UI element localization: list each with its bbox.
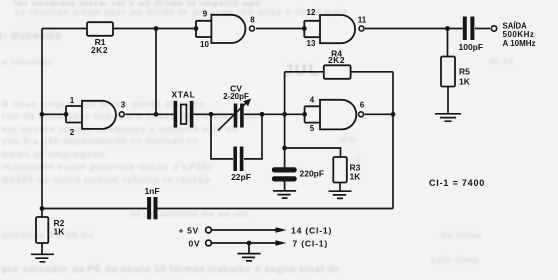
svg-text:2: 2 [70,128,75,137]
terminal +5V [206,227,212,233]
node gate6 output / right vertical [391,112,396,117]
svg-text:10: 10 [200,40,209,49]
node 220pF / R3 [282,146,287,151]
node 22pF branch right [260,112,265,117]
node left bus / bottom rail [40,206,45,211]
capacitor CV 2-20pF trimmer [218,99,251,131]
capacitor 100pF [463,17,475,41]
wire gate6 output to right vertical [365,113,394,115]
svg-text:1nF: 1nF [144,186,159,196]
node mid rail / vertical 156 [154,112,159,117]
wire gate3 output to XTAL [126,113,174,115]
crystal XTAL [174,101,194,128]
node 22pF branch left [209,112,214,117]
wire bottom rail left of 1nF [42,208,147,210]
svg-text:9: 9 [203,10,208,19]
resistor R3 [333,157,347,183]
svg-text:6: 6 [360,101,365,110]
svg-text:0V: 0V [189,239,201,249]
resistor R4 [324,65,351,79]
resistor R5 [441,57,455,87]
svg-text:2-20pF: 2-20pF [223,92,249,101]
svg-text:11: 11 [358,16,367,25]
resistor R2 [36,217,48,243]
wire XTAL to CV [194,113,234,115]
ground below 220pF [273,191,296,198]
wire +5V line [212,229,276,231]
svg-text:+ 5V: + 5V [179,226,199,236]
svg-text:1K: 1K [350,172,362,182]
node gate 9,10 input [194,26,199,31]
wire 0V ground drop [248,243,250,254]
NAND gate U1d pins 4,5 out 6 [305,100,364,130]
capacitor 22pF [233,147,243,172]
wire R5 bottom lead [447,87,449,114]
svg-text:R5: R5 [459,67,470,77]
output terminal SAIDA [491,26,496,31]
svg-text:2K2: 2K2 [91,45,108,55]
node R4 left / mid rail [282,112,287,117]
resistor R1 [87,22,113,36]
capacitor 220pF [272,167,297,181]
node gate 12,13 input [302,26,307,31]
wire R3 bottom lead [339,183,341,191]
svg-text:220pF: 220pF [300,169,325,179]
svg-text:500KHz: 500KHz [503,30,535,39]
node top rail / vertical 156 [154,26,159,31]
svg-text:100pF: 100pF [459,42,484,52]
svg-text:7 (CI-1): 7 (CI-1) [293,239,329,249]
node left bus / mid rail [40,112,45,117]
arrow to pin 14 [276,227,287,233]
ground below R5 [435,114,461,121]
wire gate8 output to gate12 bracket [256,28,304,30]
terminal 0V [206,240,212,246]
wire vertical from top rail to mid rail [155,29,157,115]
node gate 4,5 input [302,112,307,117]
ground on 0V line [238,254,261,261]
ground below R2 [31,254,54,261]
wire R4 feedback top right [351,71,393,73]
wire 220pF bottom lead [284,182,286,191]
wire gate11 output to 100pF node [365,28,463,30]
ground below R3 [329,191,352,198]
svg-text:13: 13 [307,39,316,48]
svg-text:12: 12 [307,8,316,17]
wire R4 feedback left vertical [284,72,286,148]
node gate 1,2 input [64,112,69,117]
svg-text:1K: 1K [54,227,66,237]
wire 0V line [212,242,276,244]
node 0V ground tap [247,241,252,246]
svg-text:1K: 1K [459,77,471,87]
arrow to pin 7 [276,240,287,246]
wire 22pF branch right rise [244,114,262,159]
NAND gate U1b pins 9,10 out 8 [196,15,255,43]
NAND gate U1a pins 1,2 out 3 [66,101,124,129]
wire R2 bottom lead [41,243,43,254]
svg-text:8: 8 [250,16,255,25]
wire R4 feedback top left [285,71,324,73]
wire right vertical gate6 node down to bottom rail [392,72,394,209]
svg-text:14 (CI-1): 14 (CI-1) [291,226,332,236]
svg-text:4: 4 [310,96,315,105]
wire bottom rail right of 1nF [158,208,394,210]
wire node line to R3 [285,148,341,157]
svg-text:1: 1 [70,96,75,105]
svg-text:3: 3 [121,101,126,110]
wire left vertical bus [41,29,43,209]
wire R2 top lead [41,209,43,218]
wire top rail left segment [42,28,87,30]
svg-text:A 10MHz: A 10MHz [503,39,536,48]
wire mid rail into gate1 bracket [42,113,66,115]
wire top rail R1 to gate bracket [113,28,196,30]
wire 22pF branch left drop [211,114,233,159]
svg-text:5: 5 [310,124,315,133]
capacitor 1nF [147,197,157,219]
wire 220pF top lead [284,148,286,167]
svg-text:CI-1 = 7400: CI-1 = 7400 [429,178,485,188]
wire 100pF to output terminal [475,28,490,30]
wire 100pF node to R5 [447,29,449,57]
svg-text:XTAL: XTAL [172,90,196,100]
wire CV to gate4 bracket [244,113,305,115]
node 100pF / R5 [445,26,450,31]
svg-text:2K2: 2K2 [328,55,345,65]
svg-text:22pF: 22pF [231,172,251,182]
NAND gate U1c pins 12,13 out 11 [304,15,364,43]
